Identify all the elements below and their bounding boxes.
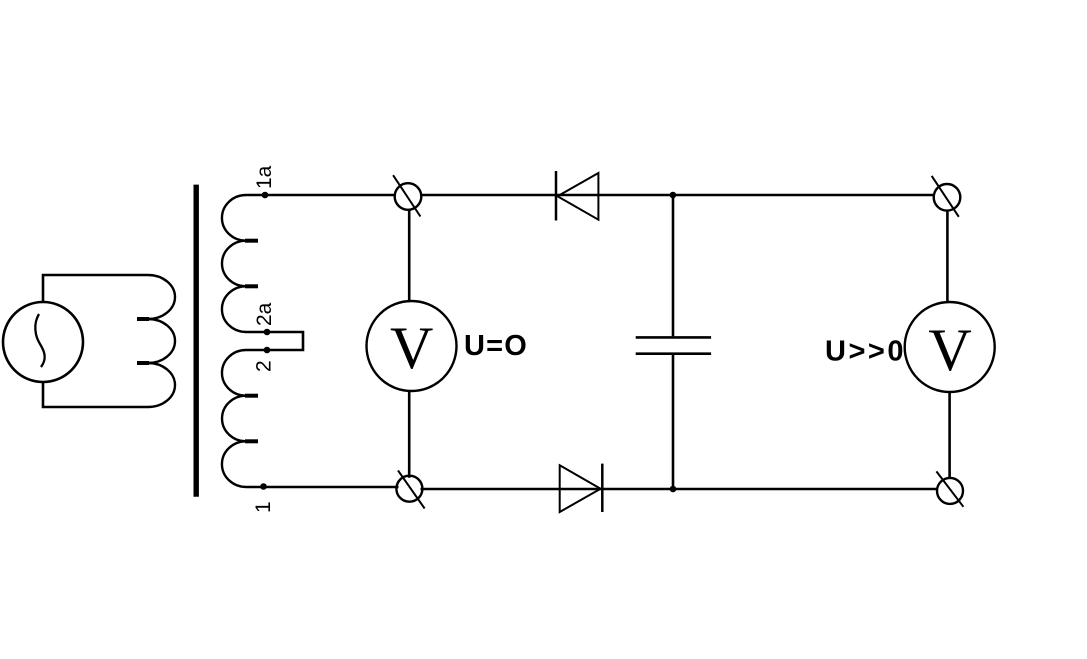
svg-text:1: 1 xyxy=(252,501,275,513)
svg-text:V: V xyxy=(928,317,971,383)
svg-text:1a: 1a xyxy=(253,165,276,189)
svg-text:2: 2 xyxy=(253,360,276,372)
svg-text:U>>0: U>>0 xyxy=(825,336,906,368)
svg-text:V: V xyxy=(390,315,433,381)
svg-text:U=O: U=O xyxy=(464,330,528,362)
svg-text:2a: 2a xyxy=(253,302,276,326)
